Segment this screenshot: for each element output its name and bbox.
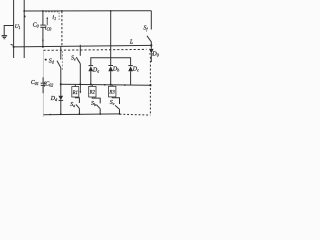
svg-text:Sc: Sc (110, 100, 115, 106)
svg-text:Db: Db (112, 66, 119, 72)
svg-text:Sb: Sb (91, 101, 96, 107)
svg-text:C01: C01 (31, 80, 39, 86)
svg-text:L: L (129, 39, 134, 45)
svg-text:Sa: Sa (70, 102, 75, 108)
svg-text:R1: R1 (72, 91, 78, 96)
svg-text:iC0: iC0 (45, 25, 51, 31)
svg-text:Dc: Dc (132, 67, 139, 73)
svg-text:R2: R2 (89, 91, 96, 96)
svg-text:Dd: Dd (50, 96, 58, 102)
svg-text:R3: R3 (108, 91, 115, 96)
svg-text:D0: D0 (151, 51, 158, 57)
svg-text:C0: C0 (33, 22, 39, 28)
svg-text:Se: Se (71, 56, 76, 62)
svg-text:Da: Da (92, 67, 99, 73)
svg-text:i1: i1 (52, 15, 56, 21)
